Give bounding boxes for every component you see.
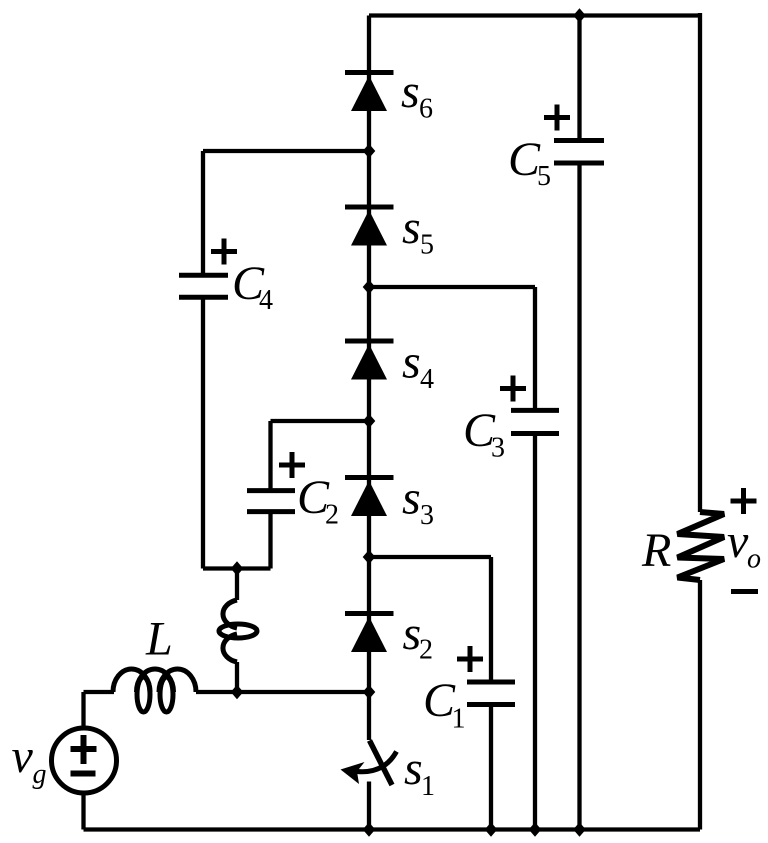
plus C5 xyxy=(544,105,570,131)
svg-text:1: 1 xyxy=(452,704,466,735)
svg-text:2: 2 xyxy=(325,500,339,531)
wire coupled coil upper lead xyxy=(235,569,239,601)
diode s2 xyxy=(345,614,394,653)
node coil top xyxy=(231,561,244,575)
wire node C to C2 xyxy=(271,419,370,423)
wire coupled coil lower lead xyxy=(235,662,239,692)
svg-text:3: 3 xyxy=(491,433,505,464)
node C1 bottom rail xyxy=(485,822,498,836)
capacitor C1 xyxy=(467,682,515,705)
wire input rail left of L xyxy=(84,690,115,694)
wire node D to C1 xyxy=(369,555,491,559)
wire C3 lower lead xyxy=(533,434,537,830)
svg-text:L: L xyxy=(145,613,173,666)
wire input rail right of L xyxy=(196,690,369,694)
diode s3 xyxy=(345,478,394,517)
switch s1 xyxy=(341,741,397,786)
node E input xyxy=(363,685,376,699)
node top rail C5 tap xyxy=(573,8,586,22)
wire C1 upper lead xyxy=(489,557,493,682)
wire node A to C4 xyxy=(203,149,369,153)
plus C1 xyxy=(457,646,483,672)
wire C4-C2 connector xyxy=(203,566,271,570)
coupled coil xyxy=(219,600,257,662)
plus C2 xyxy=(279,452,305,478)
svg-text:s: s xyxy=(401,65,420,118)
node C3 bottom rail xyxy=(529,822,542,836)
minus vo xyxy=(731,589,758,594)
svg-text:g: g xyxy=(33,759,47,790)
wire right rail lower xyxy=(698,580,702,830)
diode s4 xyxy=(345,341,394,380)
wire C2 lower lead xyxy=(268,512,272,569)
wire C4 upper lead xyxy=(201,151,205,275)
node D xyxy=(363,550,376,564)
capacitor C2 xyxy=(247,491,295,512)
svg-text:v: v xyxy=(727,515,749,568)
wire vg bottom lead xyxy=(81,793,85,830)
node switch bottom rail xyxy=(363,822,376,836)
node B xyxy=(363,280,376,294)
source vg xyxy=(52,728,117,793)
wire bottom rail xyxy=(84,827,701,831)
wire C5 lower lead xyxy=(577,163,581,830)
capacitor C4 xyxy=(179,275,228,297)
capacitor C5 xyxy=(554,141,604,164)
svg-text:1: 1 xyxy=(421,771,435,802)
svg-text:R: R xyxy=(641,524,671,577)
plus C3 xyxy=(500,376,526,402)
svg-text:4: 4 xyxy=(259,285,273,316)
wire C3 upper lead xyxy=(533,287,537,410)
diode s5 xyxy=(345,207,394,246)
capacitor C3 xyxy=(511,410,559,433)
diode s6 xyxy=(345,73,394,112)
svg-text:6: 6 xyxy=(419,94,433,125)
svg-text:s: s xyxy=(402,201,421,254)
node coil bottom xyxy=(231,685,244,699)
inductor L xyxy=(113,669,196,712)
svg-text:4: 4 xyxy=(420,364,434,395)
wire main chain vertical xyxy=(367,16,371,741)
svg-text:v: v xyxy=(12,730,34,783)
svg-text:3: 3 xyxy=(420,500,434,531)
svg-text:s: s xyxy=(402,336,421,389)
plus C4 xyxy=(211,239,237,265)
svg-text:s: s xyxy=(402,472,421,525)
wire vg top lead xyxy=(81,692,85,728)
node C5 bottom rail xyxy=(573,822,586,836)
node C xyxy=(363,414,376,428)
wire node B to C3 xyxy=(369,285,535,289)
wire top rail xyxy=(369,13,700,17)
wire C5 upper lead xyxy=(577,16,581,141)
svg-text:5: 5 xyxy=(420,230,434,261)
svg-text:2: 2 xyxy=(419,635,433,666)
wire switch lower stub xyxy=(367,782,371,830)
svg-text:5: 5 xyxy=(537,161,551,192)
wire C4 lower lead xyxy=(201,297,205,569)
resistor R xyxy=(678,512,725,580)
node A xyxy=(363,144,376,158)
wire C1 lower lead xyxy=(489,705,493,830)
wire right rail upper xyxy=(698,13,702,512)
wire C2 upper lead xyxy=(268,421,272,491)
svg-text:o: o xyxy=(747,544,761,575)
svg-text:s: s xyxy=(404,742,423,795)
plus vo xyxy=(731,488,757,514)
